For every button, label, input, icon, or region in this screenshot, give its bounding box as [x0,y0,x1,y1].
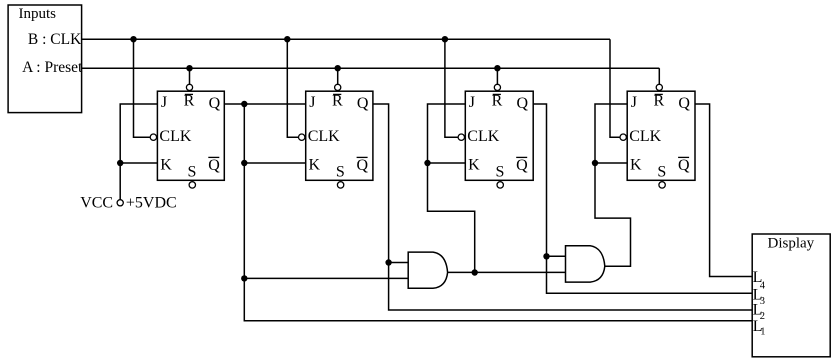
svg-text:4: 4 [760,280,766,291]
svg-text:Q: Q [678,95,690,112]
svg-text:VCC: VCC [80,195,113,212]
svg-text:Display: Display [768,236,815,252]
svg-text:2: 2 [760,311,765,322]
svg-text:CLK: CLK [159,128,191,145]
svg-text:R: R [492,92,503,109]
svg-text:R: R [184,92,195,109]
svg-text:K: K [309,157,321,174]
svg-text:CLK: CLK [467,128,499,145]
svg-text:S: S [495,163,504,180]
svg-text:CLK: CLK [629,128,661,145]
svg-text:+5VDC: +5VDC [126,195,177,212]
svg-text:J: J [309,94,315,111]
svg-text:Q: Q [357,157,369,174]
svg-text:Q: Q [678,157,690,174]
svg-text:1: 1 [760,327,765,338]
svg-text:J: J [161,94,167,111]
svg-text:J: J [469,94,475,111]
svg-text:Inputs: Inputs [19,6,57,22]
svg-text:K: K [630,157,642,174]
svg-text:CLK: CLK [308,128,340,145]
svg-text:R: R [653,92,664,109]
svg-text:S: S [188,163,197,180]
svg-text:B : CLK: B : CLK [28,31,82,48]
svg-text:R: R [332,92,343,109]
svg-text:A : Preset: A : Preset [22,59,83,76]
svg-text:3: 3 [760,296,765,307]
svg-text:S: S [657,163,666,180]
svg-text:K: K [160,157,172,174]
svg-text:S: S [336,163,345,180]
svg-text:Q: Q [517,95,529,112]
svg-text:K: K [468,157,480,174]
svg-text:J: J [631,94,637,111]
svg-text:Q: Q [208,157,220,174]
svg-text:Q: Q [357,95,369,112]
svg-text:Q: Q [209,95,221,112]
svg-text:Q: Q [516,157,528,174]
